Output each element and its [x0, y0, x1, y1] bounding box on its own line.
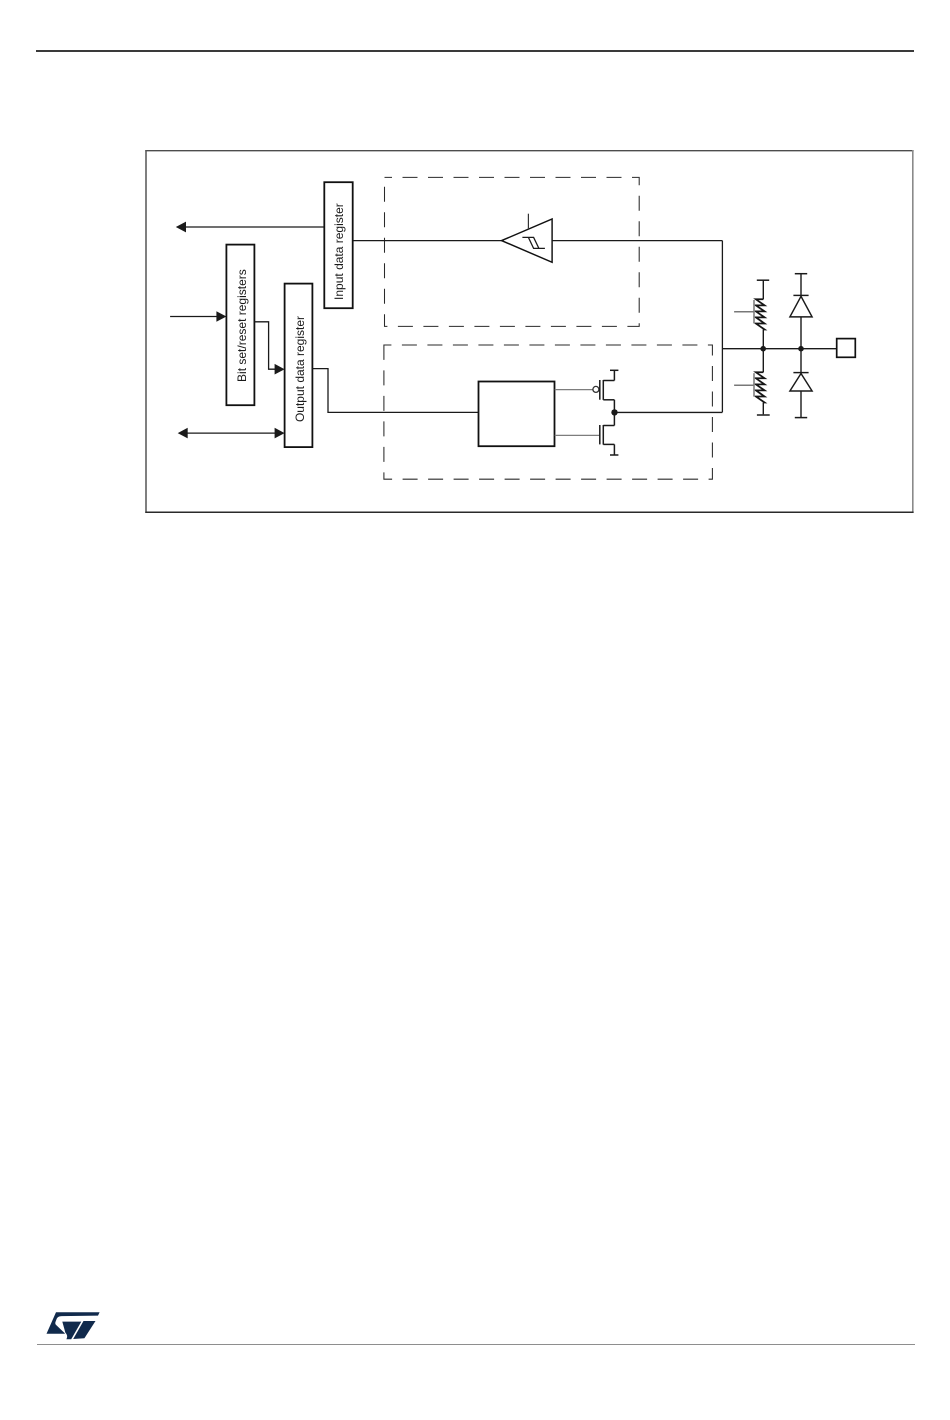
header rule [36, 50, 914, 52]
transistor N-MOS [600, 412, 619, 455]
P-MOS gate bubble [593, 386, 599, 392]
junction MOS output [611, 409, 617, 415]
VDD bar (pull-up) [757, 279, 769, 281]
resistor pull-down R2 [756, 372, 765, 402]
pull-up switch line [734, 311, 754, 313]
wire [800, 349, 802, 373]
I/O pin wire [722, 348, 836, 350]
wire output data register -> output control [312, 369, 478, 413]
footer rule [37, 1344, 915, 1346]
dashed box: output driver [384, 345, 713, 479]
svg-text:Input data register: Input data register [332, 203, 346, 300]
wire [800, 391, 802, 417]
pull-down switch line [734, 384, 754, 386]
node: diodes junction [798, 346, 804, 352]
wire [800, 317, 802, 349]
VSS bar (protection diode) [795, 417, 807, 419]
dashed box: input driver [385, 177, 640, 326]
vertical wire to output node [721, 241, 723, 413]
pull-down gate bar [753, 373, 755, 396]
figure: GPIO port bit structure [145, 149, 915, 514]
protection diode to VDD D1 [790, 295, 812, 317]
wire input data register -> schmitt trigger [353, 240, 502, 242]
wire [762, 280, 764, 299]
ST logo [46, 1312, 100, 1340]
N-MOS gate wire [555, 434, 600, 436]
input data register U1 [324, 182, 352, 308]
VDD bar (protection diode) [795, 273, 807, 275]
read arrow (from input data register) [176, 222, 324, 233]
wire [762, 330, 764, 349]
wire [762, 349, 764, 373]
svg-text:Bit set/reset registers: Bit set/reset registers [235, 269, 249, 382]
output control box [479, 382, 555, 447]
resistor pull-up R1 [756, 299, 765, 329]
write arrow (into bit set/reset registers) [170, 311, 226, 322]
svg-text:Output data register: Output data register [293, 316, 307, 422]
output data register U3 [285, 284, 313, 448]
wire schmitt trigger -> pin column [552, 240, 722, 242]
wire bit set/reset -> output data register [254, 322, 284, 375]
trigger enable line [527, 214, 529, 229]
wire [800, 274, 802, 296]
figure border frame [145, 150, 913, 152]
VSS bar (pull-down) [757, 414, 770, 416]
transistor P-MOS [600, 370, 619, 412]
protection diode to VSS D2 [790, 373, 812, 391]
I/O pin pad [837, 339, 856, 358]
wire MOS output -> vertical wire [614, 411, 722, 413]
node: pull resistors junction [760, 346, 766, 352]
P-MOS gate wire [555, 389, 593, 391]
wire [762, 403, 764, 415]
pull-up gate bar [753, 300, 755, 323]
read/write double arrow (output data register) [178, 428, 285, 439]
hysteresis symbol [522, 237, 545, 248]
bit set/reset registers U2 [226, 245, 254, 406]
TTL schmitt trigger [502, 214, 552, 263]
